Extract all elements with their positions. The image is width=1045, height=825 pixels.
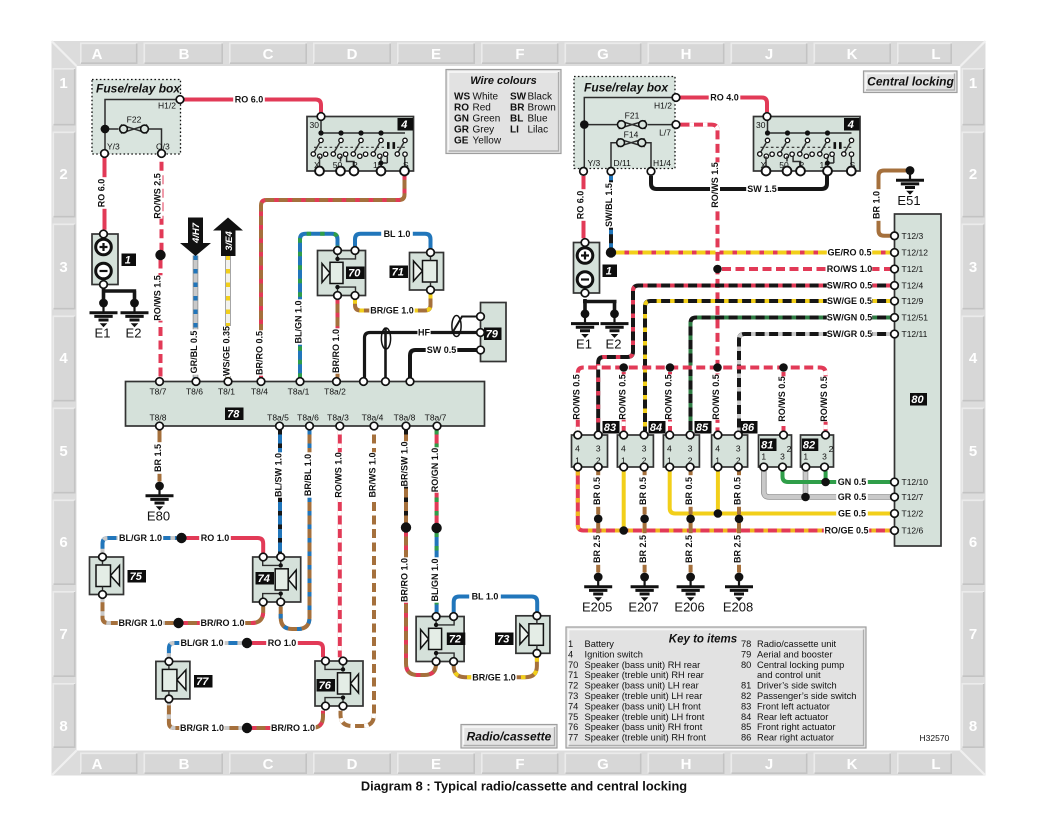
svg-text:T12/9: T12/9 [902, 296, 924, 306]
svg-text:E207: E207 [628, 600, 658, 615]
svg-text:HF: HF [418, 328, 430, 338]
svg-text:D: D [347, 46, 358, 63]
svg-text:H: H [681, 756, 692, 773]
svg-text:K: K [847, 756, 858, 773]
svg-text:85: 85 [696, 422, 709, 434]
svg-text:8: 8 [59, 718, 67, 735]
svg-text:4: 4 [621, 443, 626, 453]
svg-text:1: 1 [59, 75, 67, 92]
svg-text:RO/WS 0.5: RO/WS 0.5 [777, 376, 787, 422]
svg-text:T8a/3: T8a/3 [327, 413, 349, 423]
svg-text:H: H [681, 46, 692, 63]
svg-text:RO 6.0: RO 6.0 [97, 179, 107, 208]
svg-text:Speaker (treble unit) RH front: Speaker (treble unit) RH front [585, 733, 707, 743]
svg-text:BR/SW 1.0: BR/SW 1.0 [400, 441, 410, 486]
svg-text:T8a/2: T8a/2 [324, 387, 346, 397]
svg-text:A: A [92, 46, 103, 63]
svg-text:5: 5 [59, 443, 67, 460]
svg-text:83: 83 [604, 422, 616, 434]
svg-text:RO/WS 0.5: RO/WS 0.5 [664, 374, 674, 420]
svg-text:BR/WS 1.0: BR/WS 1.0 [368, 452, 378, 497]
svg-text:Speaker (treble unit) LH front: Speaker (treble unit) LH front [585, 712, 705, 722]
svg-text:BL 1.0: BL 1.0 [384, 229, 411, 239]
svg-text:84: 84 [650, 422, 662, 434]
svg-text:BR 0.5: BR 0.5 [684, 477, 694, 505]
svg-text:SW/GE 0.5: SW/GE 0.5 [827, 296, 872, 306]
svg-text:4: 4 [59, 350, 68, 367]
svg-text:3: 3 [642, 443, 647, 453]
svg-text:Radio/cassette: Radio/cassette [467, 730, 552, 744]
svg-text:75: 75 [130, 571, 143, 583]
svg-text:Ignition switch: Ignition switch [585, 649, 643, 659]
svg-text:E2: E2 [126, 326, 142, 341]
svg-text:Speaker (bass unit) LH rear: Speaker (bass unit) LH rear [585, 681, 699, 691]
svg-text:GE/RO 0.5: GE/RO 0.5 [827, 248, 871, 258]
svg-text:Y/3: Y/3 [107, 142, 120, 152]
svg-text:C: C [263, 756, 274, 773]
svg-text:SW: SW [510, 92, 527, 103]
svg-text:E: E [431, 46, 441, 63]
svg-text:GN: GN [454, 114, 469, 125]
svg-text:BL/GN 1.0: BL/GN 1.0 [430, 558, 440, 601]
svg-text:BR: BR [510, 103, 525, 114]
svg-text:RO/GN 1.0: RO/GN 1.0 [430, 448, 440, 493]
svg-text:Front right actuator: Front right actuator [757, 722, 836, 732]
svg-text:BL 1.0: BL 1.0 [472, 592, 499, 602]
svg-text:77: 77 [196, 676, 209, 688]
svg-text:4/H7: 4/H7 [191, 222, 202, 244]
svg-text:SW 1.5: SW 1.5 [747, 184, 777, 194]
svg-text:3: 3 [969, 259, 977, 276]
svg-text:E1: E1 [95, 326, 111, 341]
svg-text:T8a/4: T8a/4 [362, 413, 384, 423]
svg-text:RO/WS 0.5: RO/WS 0.5 [617, 374, 627, 420]
svg-text:BR 0.5: BR 0.5 [733, 477, 743, 505]
svg-text:4: 4 [969, 350, 978, 367]
svg-text:3: 3 [596, 443, 601, 453]
svg-text:Blue: Blue [528, 114, 548, 125]
svg-text:80: 80 [741, 660, 751, 670]
svg-text:Brown: Brown [528, 103, 556, 114]
svg-text:75: 75 [568, 712, 578, 722]
svg-text:T8a/8: T8a/8 [394, 413, 416, 423]
svg-text:BR/RO 1.0: BR/RO 1.0 [331, 329, 341, 373]
svg-text:T8a/7: T8a/7 [425, 413, 447, 423]
svg-text:BL/SW 1.0: BL/SW 1.0 [274, 453, 284, 497]
svg-text:E51: E51 [897, 193, 920, 208]
svg-text:Black: Black [528, 92, 553, 103]
svg-text:7: 7 [969, 626, 977, 643]
svg-text:80: 80 [911, 394, 924, 406]
svg-text:RO/WS 1.5: RO/WS 1.5 [710, 162, 720, 208]
svg-text:3: 3 [688, 443, 693, 453]
svg-text:BR/RO 1.0: BR/RO 1.0 [200, 618, 244, 628]
svg-text:84: 84 [741, 712, 751, 722]
svg-text:Speaker (treble unit) LH rear: Speaker (treble unit) LH rear [585, 691, 703, 701]
svg-text:GR/BL 0.5: GR/BL 0.5 [189, 331, 199, 374]
svg-text:5: 5 [969, 443, 977, 460]
svg-text:BR/RO 1.0: BR/RO 1.0 [271, 723, 315, 733]
svg-text:L: L [931, 46, 940, 63]
svg-text:White: White [473, 92, 499, 103]
svg-text:F14: F14 [624, 130, 639, 140]
svg-text:BR/GR 1.0: BR/GR 1.0 [180, 723, 224, 733]
svg-text:T8/1: T8/1 [218, 387, 235, 397]
svg-text:RO 6.0: RO 6.0 [576, 191, 586, 220]
svg-text:T12/51: T12/51 [902, 313, 929, 323]
svg-text:Lilac: Lilac [528, 125, 549, 136]
svg-text:K: K [847, 46, 858, 63]
svg-text:SW/GR 0.5: SW/GR 0.5 [827, 329, 873, 339]
svg-text:E205: E205 [582, 600, 612, 615]
svg-text:83: 83 [741, 701, 751, 711]
svg-text:BR/GE 1.0: BR/GE 1.0 [370, 306, 414, 316]
svg-text:3: 3 [780, 452, 785, 462]
svg-text:LI: LI [510, 125, 519, 136]
svg-text:4: 4 [715, 443, 720, 453]
svg-text:86: 86 [741, 733, 751, 743]
svg-text:Rear right actuator: Rear right actuator [757, 733, 834, 743]
svg-text:RO 1.0: RO 1.0 [201, 533, 230, 543]
svg-text:2: 2 [787, 444, 792, 454]
svg-text:BR 2.5: BR 2.5 [638, 535, 648, 563]
svg-text:BR 0.5: BR 0.5 [638, 477, 648, 505]
svg-text:T12/7: T12/7 [902, 492, 924, 502]
svg-text:2: 2 [969, 166, 977, 183]
svg-text:70: 70 [348, 268, 361, 280]
svg-text:E80: E80 [147, 509, 170, 524]
svg-text:74: 74 [258, 573, 270, 585]
svg-text:F: F [515, 46, 524, 63]
svg-text:BL: BL [510, 114, 523, 125]
svg-text:86: 86 [742, 422, 755, 434]
svg-text:J: J [765, 756, 773, 773]
svg-text:T12/2: T12/2 [902, 509, 924, 519]
svg-text:3: 3 [736, 443, 741, 453]
svg-text:D: D [347, 756, 358, 773]
svg-text:Aerial and booster: Aerial and booster [757, 649, 832, 659]
svg-text:Speaker (bass unit) RH rear: Speaker (bass unit) RH rear [585, 660, 701, 670]
svg-text:GE 0.5: GE 0.5 [838, 509, 866, 519]
svg-text:E1: E1 [576, 336, 592, 351]
svg-text:B: B [179, 756, 190, 773]
svg-text:4: 4 [575, 443, 580, 453]
svg-text:BL/GR 1.0: BL/GR 1.0 [180, 638, 223, 648]
svg-text:T12/10: T12/10 [902, 477, 929, 487]
svg-text:6: 6 [969, 534, 977, 551]
svg-text:Front left actuator: Front left actuator [757, 701, 830, 711]
svg-text:3/E4: 3/E4 [224, 231, 235, 251]
svg-text:T8a/1: T8a/1 [288, 387, 310, 397]
svg-text:BR/GE 1.0: BR/GE 1.0 [472, 672, 516, 682]
svg-text:Speaker (bass unit) RH front: Speaker (bass unit) RH front [585, 722, 703, 732]
svg-text:RO/WS 1.0: RO/WS 1.0 [334, 452, 344, 498]
svg-text:72: 72 [568, 681, 578, 691]
svg-text:30: 30 [756, 120, 766, 130]
svg-text:6: 6 [59, 534, 67, 551]
svg-text:Speaker (treble unit) RH rear: Speaker (treble unit) RH rear [585, 670, 704, 680]
svg-text:RO/GE 0.5: RO/GE 0.5 [824, 526, 868, 536]
svg-text:H1/2: H1/2 [158, 101, 176, 111]
svg-text:F: F [515, 756, 524, 773]
svg-text:GR 0.5: GR 0.5 [838, 492, 867, 502]
svg-text:Speaker (bass unit) LH front: Speaker (bass unit) LH front [585, 701, 702, 711]
svg-text:1: 1 [125, 255, 131, 267]
svg-text:RO/WS 2.5: RO/WS 2.5 [153, 173, 163, 219]
svg-text:BR 1.0: BR 1.0 [872, 191, 882, 219]
svg-text:Diagram 8 : Typical radio/cass: Diagram 8 : Typical radio/cassette and c… [361, 779, 687, 794]
svg-text:G: G [597, 46, 609, 63]
svg-text:RO/WS 1.5: RO/WS 1.5 [153, 275, 163, 321]
svg-text:GE: GE [454, 136, 469, 147]
svg-text:RO 6.0: RO 6.0 [235, 95, 264, 105]
svg-text:T12/6: T12/6 [902, 526, 924, 536]
svg-text:Key to items: Key to items [669, 634, 737, 646]
svg-text:BR 0.5: BR 0.5 [592, 477, 602, 505]
svg-text:Fuse/relay box: Fuse/relay box [584, 81, 669, 95]
svg-text:WS/GE 0.35: WS/GE 0.35 [222, 326, 232, 376]
svg-text:E2: E2 [606, 336, 622, 351]
svg-text:SW 0.5: SW 0.5 [427, 345, 457, 355]
svg-text:D/11: D/11 [614, 158, 632, 168]
svg-text:76: 76 [319, 680, 332, 692]
svg-text:BL/GN 1.0: BL/GN 1.0 [294, 300, 304, 343]
svg-text:Green: Green [473, 114, 501, 125]
svg-text:85: 85 [741, 722, 751, 732]
svg-text:H1/4: H1/4 [653, 158, 671, 168]
svg-text:RO 4.0: RO 4.0 [710, 93, 739, 103]
svg-text:J: J [765, 46, 773, 63]
svg-text:BR/RO 0.5: BR/RO 0.5 [255, 331, 265, 375]
svg-text:78: 78 [227, 409, 240, 421]
svg-text:RO/WS 0.5: RO/WS 0.5 [819, 376, 829, 422]
svg-text:1: 1 [803, 452, 808, 462]
svg-text:82: 82 [803, 440, 815, 452]
svg-text:30: 30 [310, 120, 320, 130]
svg-text:BR 2.5: BR 2.5 [733, 535, 743, 563]
svg-text:T8/7: T8/7 [149, 387, 166, 397]
svg-text:SW/RO 0.5: SW/RO 0.5 [827, 281, 873, 291]
svg-text:Driver’s side switch: Driver’s side switch [757, 681, 837, 691]
svg-text:BR 2.5: BR 2.5 [592, 535, 602, 563]
svg-text:T12/3: T12/3 [902, 231, 924, 241]
svg-text:3: 3 [59, 259, 67, 276]
svg-text:1: 1 [606, 266, 612, 278]
svg-text:2: 2 [829, 444, 834, 454]
svg-text:T8a/5: T8a/5 [267, 413, 289, 423]
svg-text:RO: RO [454, 103, 469, 114]
svg-text:BR/BL 1.0: BR/BL 1.0 [303, 454, 313, 496]
svg-text:79: 79 [741, 649, 751, 659]
svg-text:Battery: Battery [585, 639, 615, 649]
svg-text:72: 72 [449, 634, 461, 646]
svg-text:71: 71 [392, 267, 404, 279]
svg-text:E: E [431, 756, 441, 773]
svg-text:1: 1 [761, 452, 766, 462]
svg-text:and control unit: and control unit [757, 670, 821, 680]
svg-text:B: B [179, 46, 190, 63]
svg-text:4: 4 [847, 119, 854, 131]
svg-text:77: 77 [568, 733, 578, 743]
svg-text:1: 1 [969, 75, 977, 92]
svg-text:81: 81 [741, 681, 751, 691]
svg-text:T8/4: T8/4 [251, 387, 268, 397]
svg-text:E206: E206 [674, 600, 704, 615]
svg-text:T8a/6: T8a/6 [297, 413, 319, 423]
svg-text:L/7: L/7 [659, 128, 671, 138]
svg-text:SW/BL 1.5: SW/BL 1.5 [604, 183, 614, 227]
svg-text:Wire colours: Wire colours [470, 75, 537, 87]
svg-text:RO 1.0: RO 1.0 [268, 638, 297, 648]
svg-text:Central locking: Central locking [867, 75, 954, 89]
svg-text:E208: E208 [723, 600, 753, 615]
svg-text:2: 2 [59, 166, 67, 183]
svg-text:1: 1 [568, 639, 573, 649]
svg-text:Grey: Grey [473, 125, 495, 136]
svg-text:T8/8: T8/8 [149, 413, 166, 423]
svg-text:Fuse/relay box: Fuse/relay box [96, 82, 181, 96]
svg-text:F22: F22 [127, 115, 142, 125]
svg-text:H32570: H32570 [920, 733, 950, 743]
svg-text:4: 4 [568, 649, 573, 659]
svg-text:BR/GR 1.0: BR/GR 1.0 [118, 618, 162, 628]
svg-text:Y/3: Y/3 [588, 158, 601, 168]
svg-text:Yellow: Yellow [473, 136, 502, 147]
svg-text:4: 4 [400, 119, 407, 131]
svg-text:70: 70 [568, 660, 578, 670]
svg-text:3: 3 [822, 452, 827, 462]
svg-text:RO/WS 0.5: RO/WS 0.5 [572, 374, 582, 420]
svg-text:Central locking pump: Central locking pump [757, 660, 844, 670]
svg-text:76: 76 [568, 722, 578, 732]
svg-text:4: 4 [667, 443, 672, 453]
svg-text:H1/2: H1/2 [654, 101, 672, 111]
svg-text:WS: WS [454, 92, 470, 103]
svg-text:Rear left actuator: Rear left actuator [757, 712, 828, 722]
svg-text:BR 2.5: BR 2.5 [684, 535, 694, 563]
svg-text:GN 0.5: GN 0.5 [838, 477, 867, 487]
svg-text:78: 78 [741, 639, 751, 649]
svg-text:81: 81 [761, 440, 773, 452]
svg-text:F21: F21 [625, 111, 640, 121]
svg-text:GR: GR [454, 125, 470, 136]
svg-text:BL/GR 1.0: BL/GR 1.0 [119, 533, 162, 543]
svg-text:Passenger’s side switch: Passenger’s side switch [757, 691, 856, 701]
svg-text:G: G [597, 756, 609, 773]
svg-text:T12/12: T12/12 [902, 248, 929, 258]
svg-text:A: A [92, 756, 103, 773]
svg-text:T12/1: T12/1 [902, 264, 924, 274]
svg-text:8: 8 [969, 718, 977, 735]
svg-text:SW/GN 0.5: SW/GN 0.5 [827, 313, 873, 323]
svg-text:71: 71 [568, 670, 578, 680]
svg-text:BR/RO 1.0: BR/RO 1.0 [400, 558, 410, 602]
svg-text:BR 1.5: BR 1.5 [153, 444, 163, 472]
svg-text:RO/WS 1.0: RO/WS 1.0 [827, 264, 873, 274]
svg-text:73: 73 [568, 691, 578, 701]
svg-text:79: 79 [486, 329, 499, 341]
svg-text:L: L [931, 756, 940, 773]
svg-text:74: 74 [568, 701, 578, 711]
svg-text:Radio/cassette unit: Radio/cassette unit [757, 639, 836, 649]
svg-text:T8/6: T8/6 [186, 387, 203, 397]
svg-text:T12/11: T12/11 [902, 329, 928, 339]
svg-text:Red: Red [473, 103, 491, 114]
svg-text:T12/4: T12/4 [902, 281, 924, 291]
svg-text:7: 7 [59, 626, 67, 643]
svg-text:82: 82 [741, 691, 751, 701]
svg-text:73: 73 [497, 634, 509, 646]
svg-text:C: C [263, 46, 274, 63]
svg-text:RO/WS 0.5: RO/WS 0.5 [711, 374, 721, 420]
